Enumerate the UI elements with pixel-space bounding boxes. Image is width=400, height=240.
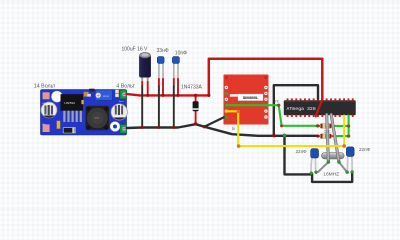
wire red riser to top bbox=[209, 59, 322, 100]
mounting hole bottom-right bbox=[110, 122, 120, 132]
capacitor C5 22pF right bbox=[346, 147, 354, 172]
node junction dots on red rail bbox=[146, 94, 210, 97]
terminal block OUT+ green bbox=[120, 90, 127, 98]
module SIM800L board bbox=[224, 75, 269, 125]
pad VIN+ pink top-left bbox=[43, 92, 50, 99]
wire black crystal ground U bbox=[312, 172, 352, 182]
svg-text:100uF 16 V: 100uF 16 V bbox=[122, 47, 149, 53]
svg-text:ATmega 328: ATmega 328 bbox=[287, 106, 316, 112]
wire gray crystal leg left bbox=[327, 115, 329, 162]
svg-text:16MHZ: 16MHZ bbox=[323, 171, 339, 177]
svg-text:LM2596: LM2596 bbox=[64, 102, 75, 105]
IC U2 ATmega 328 bbox=[284, 101, 356, 116]
sim right pin header bbox=[265, 86, 267, 118]
smd white pair bbox=[87, 94, 91, 97]
wire black leg C3 bbox=[173, 78, 175, 85]
capacitor C1 100uF electrolytic bbox=[139, 52, 150, 81]
node green dot sim gnd bbox=[224, 115, 227, 118]
smd part top edge bbox=[89, 89, 94, 92]
svg-text:rx: rx bbox=[275, 99, 279, 104]
mounting hole top-left bbox=[51, 91, 62, 102]
node orange dots on yellow wire bbox=[237, 110, 346, 148]
IC U1 LM2596 bbox=[61, 94, 84, 111]
node junction dots on ground rail bbox=[141, 122, 320, 137]
svg-text:tx: tx bbox=[232, 126, 236, 131]
node green dots crystal pins bbox=[327, 161, 330, 164]
smd white pair right column bbox=[115, 90, 118, 97]
svg-text:1N4733A: 1N4733A bbox=[181, 85, 203, 91]
wire gray crystal leg right bbox=[331, 115, 339, 162]
capacitor C2 33nF ceramic bbox=[157, 57, 164, 80]
capacitor input elco on module bbox=[41, 102, 57, 118]
wire red leg C2 bbox=[162, 78, 164, 96]
wire black loop over ATmega bbox=[274, 85, 318, 135]
svg-text:+VIn: +VIn bbox=[42, 103, 46, 105]
node dots on green wire bbox=[277, 104, 350, 138]
wire green sim to rail bbox=[226, 104, 278, 106]
capacitor C3 10pF ceramic bbox=[172, 57, 179, 80]
wire green diagonal down bbox=[279, 105, 282, 126]
label box SIM800L bbox=[230, 94, 263, 101]
sim left pin header bbox=[225, 86, 227, 118]
diode on module bbox=[63, 128, 75, 133]
wire red leg C3 bbox=[177, 78, 179, 96]
svg-text:1 K: 1 K bbox=[324, 129, 331, 134]
wire black leg C1 bbox=[141, 81, 143, 85]
wire yellow sim tx to ATmega bbox=[226, 111, 344, 146]
wire black ground rail bbox=[127, 124, 318, 136]
svg-text:-VIn: -VIn bbox=[42, 124, 45, 126]
terminal block OUT- green bbox=[120, 125, 127, 133]
resistor R1 1K bbox=[318, 124, 335, 129]
wire red diagonal over ATmega bbox=[316, 100, 323, 116]
svg-text:22пФ: 22пФ bbox=[296, 149, 308, 154]
svg-text:W103: W103 bbox=[103, 96, 109, 98]
svg-text:SIM800L: SIM800L bbox=[243, 95, 259, 100]
wire black branch to crystal ground bbox=[285, 136, 311, 175]
pad sim top-right bbox=[264, 76, 267, 79]
node green junction on ground bbox=[283, 134, 286, 137]
node green dots crystal area bbox=[310, 171, 354, 175]
svg-text:14 Вольт: 14 Вольт bbox=[34, 83, 56, 89]
resistor R2 1K bbox=[318, 134, 335, 139]
pad sim top-left bbox=[225, 76, 228, 79]
pad pink bottom-left bbox=[43, 124, 50, 132]
module LM2596 board bbox=[41, 90, 127, 136]
capacitor output elco on module bbox=[111, 104, 127, 120]
svg-text:22пФ: 22пФ bbox=[359, 147, 371, 152]
small cap on module bbox=[57, 121, 61, 129]
wire green R2 to vertical bbox=[334, 135, 349, 137]
svg-text:33нФ: 33нФ bbox=[157, 48, 169, 54]
wire black leg C2 bbox=[158, 78, 160, 85]
svg-text:47K: 47K bbox=[94, 116, 99, 120]
svg-text:10пФ: 10пФ bbox=[175, 51, 187, 57]
wire black to sim gnd pin bbox=[204, 117, 225, 127]
trimmer potentiometer on module bbox=[95, 90, 112, 100]
wire green R1 to pin bbox=[334, 125, 349, 127]
smd cap 181 on module bbox=[84, 92, 89, 97]
ATmega top pins bbox=[287, 98, 354, 100]
inductor toroid on module bbox=[86, 106, 110, 131]
crystal Y1 16MHz body bbox=[322, 153, 345, 159]
svg-text:4 Вольт: 4 Вольт bbox=[116, 84, 135, 90]
wire red leg C1 bbox=[147, 81, 149, 96]
wire green to R1 bbox=[282, 125, 318, 127]
wire red power rail bbox=[127, 94, 209, 95]
capacitor C4 22pF left bbox=[311, 149, 319, 173]
ATmega bottom pins bbox=[287, 115, 354, 118]
diode D1 1N4733A bbox=[193, 96, 199, 124]
crystal lower diagonal legs bbox=[318, 162, 348, 172]
smd yellow cap bbox=[81, 100, 83, 104]
IC pins bbox=[63, 111, 82, 122]
wire green vertical to pin bbox=[348, 116, 350, 137]
